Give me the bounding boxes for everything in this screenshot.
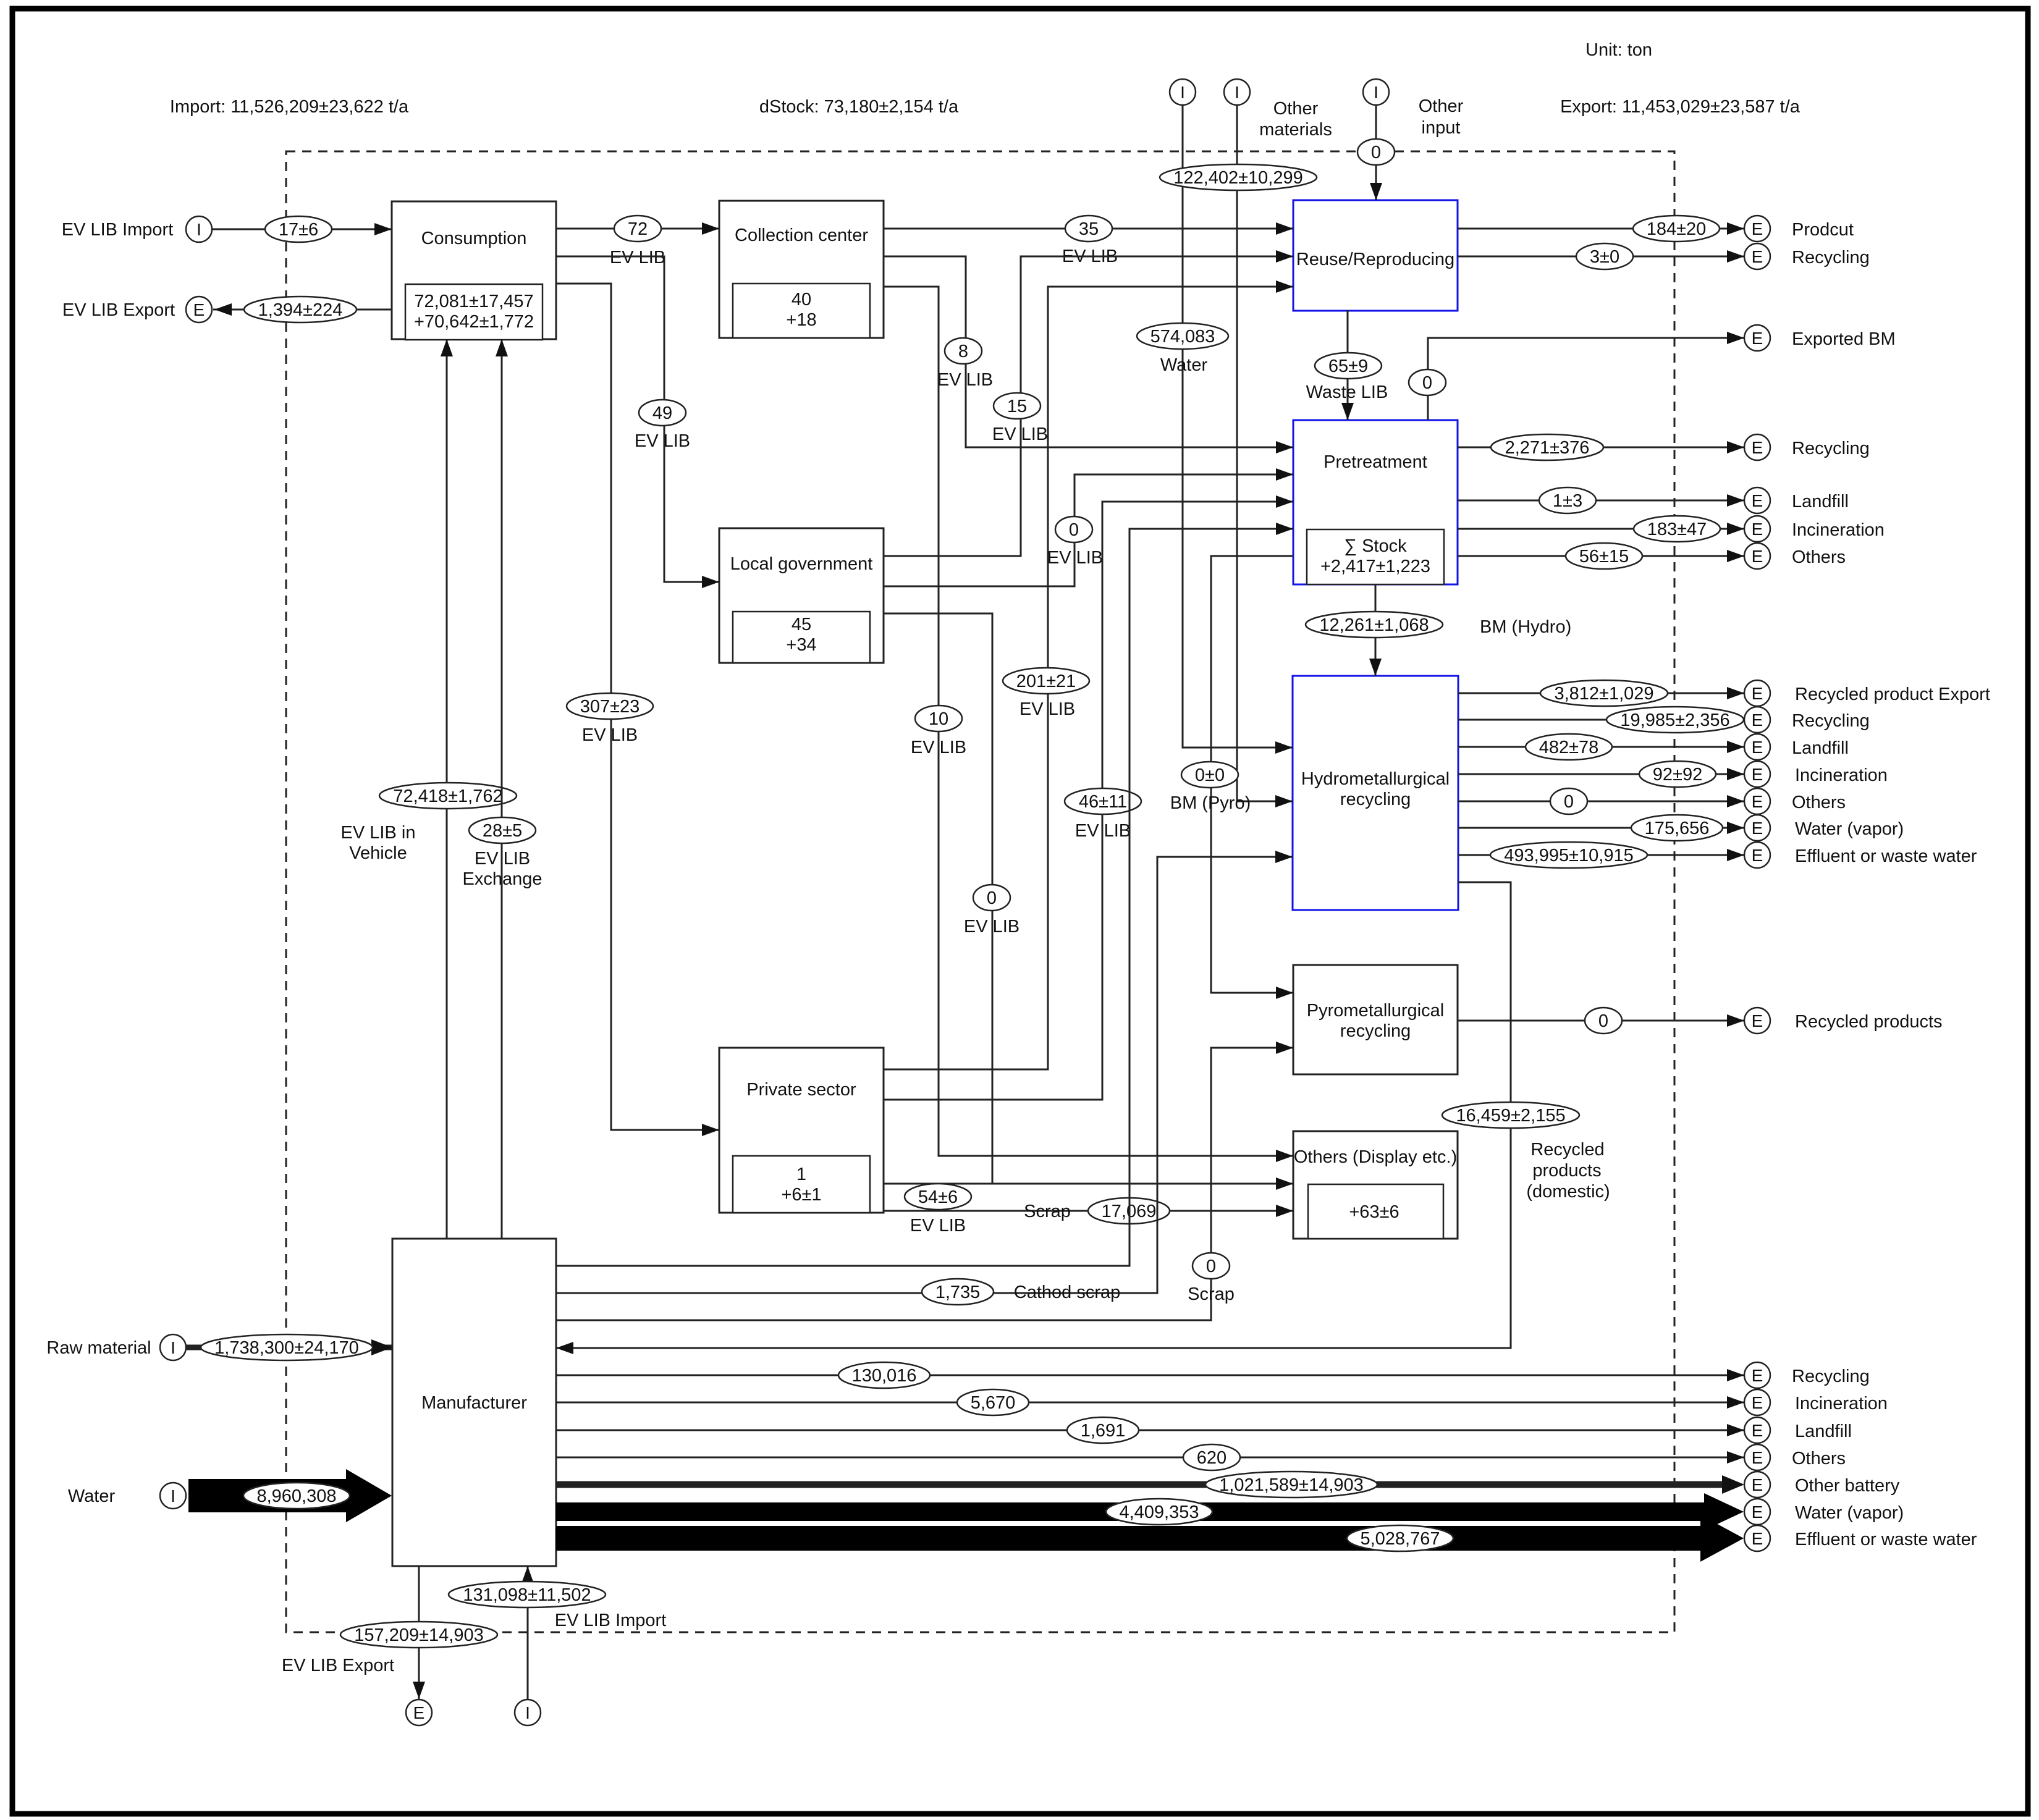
svg-text:8: 8	[958, 342, 968, 361]
svg-text:I: I	[1180, 83, 1185, 102]
flow 3±0 Reuse to Recycling	[1458, 243, 1744, 269]
flow 201±21 Private sector to Reuse	[884, 280, 1293, 1069]
svg-text:I: I	[171, 1486, 175, 1506]
svg-text:3±0: 3±0	[1590, 247, 1619, 267]
svg-text:Vehicle: Vehicle	[349, 843, 407, 863]
flow 0 Other input to Reuse	[1357, 105, 1395, 200]
export node E Other battery	[1744, 1472, 1900, 1498]
process Hydrometallurgical recycling	[1293, 676, 1458, 910]
dashed system boundary	[286, 151, 1674, 1632]
svg-text:Incineration: Incineration	[1795, 1394, 1888, 1413]
svg-text:E: E	[1752, 1011, 1763, 1030]
svg-text:19,985±2,356: 19,985±2,356	[1620, 710, 1729, 730]
flow 28±5 EV LIB Exchange Manufacturer to Consumption	[463, 339, 542, 1239]
svg-text:184±20: 184±20	[1647, 219, 1707, 239]
svg-text:Private sector: Private sector	[746, 1080, 856, 1100]
svg-text:Others: Others	[1792, 1449, 1846, 1468]
flow 49 Consumption to Local government	[556, 256, 719, 588]
svg-text:72,081±17,457: 72,081±17,457	[414, 292, 533, 311]
flow 2,271±376 Pretreatment to Recycling	[1458, 434, 1744, 460]
svg-text:130,016: 130,016	[852, 1366, 917, 1386]
svg-text:493,995±10,915: 493,995±10,915	[1504, 846, 1633, 866]
title Unit: ton	[1585, 40, 1652, 60]
svg-text:Incineration: Incineration	[1795, 765, 1888, 785]
export node E Recycled products	[1744, 1008, 1943, 1034]
flow 65±9 Waste LIB Reuse to Pretreatment	[1306, 310, 1388, 420]
import node I EV LIB Import	[62, 216, 212, 242]
svg-text:Landfill: Landfill	[1792, 738, 1849, 758]
svg-text:1,394±224: 1,394±224	[258, 300, 343, 320]
flow 574,083 Water to Hydro	[1137, 105, 1293, 754]
import node I Raw material	[46, 1334, 186, 1360]
process Private sector	[719, 1048, 884, 1213]
svg-text:Exchange: Exchange	[463, 869, 542, 889]
svg-text:Others (Display etc.): Others (Display etc.)	[1294, 1147, 1457, 1167]
svg-text:1,691: 1,691	[1081, 1421, 1126, 1441]
svg-text:Raw material: Raw material	[46, 1338, 151, 1358]
svg-text:I: I	[171, 1338, 175, 1357]
svg-text:92±92: 92±92	[1653, 765, 1702, 785]
process Pretreatment	[1293, 420, 1458, 584]
svg-text:Scrap: Scrap	[1024, 1202, 1071, 1221]
svg-text:EV LIB: EV LIB	[1020, 699, 1075, 719]
svg-text:1,021,589±14,903: 1,021,589±14,903	[1219, 1475, 1364, 1495]
flow 620 Manufacturer to Others	[556, 1444, 1744, 1470]
svg-text:+6±1: +6±1	[781, 1185, 821, 1205]
flow 0 Scrap Manufacturer to Pyro	[556, 1042, 1293, 1320]
svg-text:recycling: recycling	[1340, 1021, 1411, 1041]
svg-text:EV LIB in: EV LIB in	[341, 823, 416, 843]
svg-text:12,261±1,068: 12,261±1,068	[1319, 615, 1429, 635]
svg-text:E: E	[1752, 1366, 1763, 1385]
flow 175,656 Hydro to Water vapor	[1458, 815, 1744, 841]
flow 46±11 Private sector to Pretreatment	[884, 495, 1293, 1100]
svg-text:Exported BM: Exported BM	[1792, 329, 1896, 349]
export node E Landfill pre	[1744, 487, 1849, 513]
svg-text:49: 49	[652, 403, 672, 423]
svg-text:2,271±376: 2,271±376	[1505, 438, 1590, 458]
svg-text:E: E	[1752, 329, 1763, 348]
svg-text:Recycling: Recycling	[1792, 1367, 1870, 1386]
export node E Recycling hy	[1744, 707, 1870, 733]
export node E Incineration hy	[1744, 761, 1888, 787]
flow 1,735 Cathod scrap Manufacturer to Hydro	[556, 851, 1293, 1305]
svg-text:482±78: 482±78	[1539, 738, 1599, 757]
svg-text:574,083: 574,083	[1150, 327, 1215, 347]
svg-text:E: E	[1752, 684, 1763, 703]
svg-text:Waste LIB: Waste LIB	[1306, 382, 1388, 402]
svg-text:E: E	[1752, 1393, 1763, 1412]
svg-text:EV LIB Import: EV LIB Import	[555, 1611, 667, 1630]
label Export total	[1560, 97, 1800, 117]
flow 0 Hydro to Others	[1458, 788, 1744, 814]
svg-text:EV LIB: EV LIB	[1047, 548, 1103, 568]
svg-text:input: input	[1422, 118, 1461, 138]
svg-text:Collection center: Collection center	[735, 225, 868, 245]
svg-text:Pretreatment: Pretreatment	[1323, 452, 1427, 472]
flow 92±92 Hydro to Incineration	[1458, 761, 1744, 787]
flow 17,069 Scrap to Others	[884, 1198, 1293, 1224]
svg-text:1,738,300±24,170: 1,738,300±24,170	[214, 1338, 359, 1358]
svg-text:0±0: 0±0	[1195, 765, 1225, 785]
flow 3,812±1,029 Hydro to Recycled product Export	[1458, 680, 1744, 706]
svg-text:Local government: Local government	[730, 554, 873, 574]
svg-text:E: E	[1752, 1529, 1763, 1548]
svg-text:Reuse/Reproducing: Reuse/Reproducing	[1296, 250, 1454, 269]
process Manufacturer	[392, 1239, 556, 1566]
svg-text:Pyrometallurgical: Pyrometallurgical	[1307, 1001, 1444, 1021]
svg-text:175,656: 175,656	[1645, 819, 1710, 838]
svg-text:28±5: 28±5	[483, 821, 522, 841]
svg-text:E: E	[1752, 1421, 1763, 1440]
svg-text:16,459±2,155: 16,459±2,155	[1456, 1106, 1565, 1126]
svg-text:0: 0	[987, 888, 997, 908]
svg-text:EV LIB Export: EV LIB Export	[282, 1656, 394, 1675]
svg-text:E: E	[1752, 1475, 1763, 1494]
flow 183±47 Pretreatment to Incineration	[1458, 516, 1744, 542]
svg-text:Hydrometallurgical: Hydrometallurgical	[1301, 769, 1450, 789]
export node E Effluent hy	[1744, 842, 1977, 868]
flow 16,459±2,155 Recycled products domestic Hydro to Manufacturer	[556, 882, 1610, 1354]
svg-text:Effluent or waste water: Effluent or waste water	[1795, 1530, 1977, 1549]
import node I Water top	[1170, 79, 1196, 105]
svg-text:Water: Water	[1160, 355, 1208, 375]
svg-text:3,812±1,029: 3,812±1,029	[1554, 684, 1653, 704]
svg-text:8,960,308: 8,960,308	[256, 1486, 336, 1506]
flow 54±6 EV LIB Private sector stub	[884, 1184, 992, 1236]
flow 1,738,300±24,170 Raw material into Manufacturer	[186, 1334, 392, 1360]
svg-text:Prodcut: Prodcut	[1792, 220, 1854, 240]
export node E EV LIB Export	[62, 297, 212, 322]
svg-text:BM (Pyro): BM (Pyro)	[1170, 793, 1251, 813]
flow 184±20 Reuse to Prodcut	[1458, 216, 1744, 242]
svg-text:materials: materials	[1259, 120, 1332, 140]
flow 1,691 Manufacturer to Landfill	[556, 1417, 1744, 1443]
export node E Others mf	[1744, 1444, 1846, 1470]
svg-text:45: 45	[792, 615, 811, 634]
svg-text:5,670: 5,670	[971, 1393, 1016, 1413]
export node E Recycling top	[1744, 243, 1870, 269]
svg-text:I: I	[196, 220, 201, 239]
svg-text:Recycling: Recycling	[1792, 248, 1870, 268]
flow 493,995±10,915 Hydro to Effluent	[1458, 842, 1744, 868]
flow 0±0 BM (Pyro) Pretreatment to Pyro	[1170, 556, 1293, 999]
flow 5,670 Manufacturer to Incineration	[556, 1389, 1744, 1415]
flow scrap Manufacturer to Pretreatment	[556, 523, 1293, 1266]
flow 0 Pyro to Recycled products	[1458, 1008, 1744, 1034]
export node E Water vapor hy	[1744, 815, 1904, 841]
label Others title	[1294, 1147, 1457, 1167]
svg-text:Import: 11,526,209±23,622 t/a: Import: 11,526,209±23,622 t/a	[170, 97, 409, 117]
flow 122,402±10,299 Other materials to Hydro	[1160, 105, 1317, 807]
svg-text:+70,642±1,772: +70,642±1,772	[414, 312, 534, 332]
svg-text:EV LIB: EV LIB	[911, 738, 966, 757]
svg-text:Water (vapor): Water (vapor)	[1795, 819, 1904, 839]
svg-text:Recycling: Recycling	[1792, 439, 1870, 458]
svg-text:183±47: 183±47	[1647, 520, 1707, 539]
svg-text:E: E	[1752, 247, 1763, 266]
svg-text:E: E	[1752, 846, 1763, 865]
svg-text:EV LIB: EV LIB	[964, 917, 1020, 937]
svg-text:∑ Stock: ∑ Stock	[1344, 536, 1407, 556]
export node E Recycling mf	[1744, 1362, 1870, 1388]
export node E Recycled product Export	[1744, 680, 1990, 706]
svg-text:E: E	[1752, 219, 1763, 238]
flow 56±15 Pretreatment to Others	[1458, 543, 1744, 569]
svg-text:131,098±11,502: 131,098±11,502	[463, 1585, 591, 1605]
flow 72,418±1,762 EV LIB in Vehicle Manufacturer to Consumption	[341, 339, 517, 1239]
svg-text:157,209±14,903: 157,209±14,903	[354, 1625, 483, 1645]
svg-text:Others: Others	[1792, 547, 1846, 567]
svg-text:E: E	[1752, 547, 1763, 566]
svg-text:0: 0	[1371, 143, 1381, 162]
flow 12,261±1,068 BM (Hydro) Pretreatment to Hydro	[1306, 584, 1571, 676]
svg-text:Unit: ton: Unit: ton	[1585, 40, 1652, 60]
svg-text:Consumption: Consumption	[421, 229, 527, 248]
svg-text:Manufacturer: Manufacturer	[421, 1393, 527, 1413]
flow 19,985±2,356 Hydro to Recycling	[1458, 707, 1744, 733]
flow 0 Local government to Others	[884, 613, 1293, 1190]
svg-text:307±23: 307±23	[580, 697, 640, 717]
flow 307±23 Consumption to Private sector	[556, 284, 719, 1136]
svg-text:1: 1	[796, 1165, 806, 1184]
svg-text:0: 0	[1069, 520, 1079, 540]
import node I Other materials	[1224, 79, 1332, 140]
svg-text:0: 0	[1206, 1257, 1216, 1276]
svg-text:65±9: 65±9	[1328, 356, 1368, 376]
svg-text:E: E	[1752, 1502, 1763, 1522]
svg-text:E: E	[413, 1703, 425, 1722]
svg-text:0: 0	[1564, 792, 1574, 812]
svg-text:0: 0	[1422, 373, 1432, 393]
flow 17±6 EV LIB Import into Consumption	[212, 216, 392, 242]
svg-text:+2,417±1,223: +2,417±1,223	[1320, 557, 1430, 576]
label Import total	[170, 97, 409, 117]
export node E Incineration pre	[1744, 516, 1885, 542]
flow 35 Collection to Reuse	[884, 216, 1293, 266]
flow 4,409,353 Manufacturer to Water vapor	[556, 1493, 1744, 1530]
export node E Prodcut	[1744, 216, 1854, 242]
svg-text:EV LIB Import: EV LIB Import	[62, 220, 174, 240]
svg-text:17±6: 17±6	[279, 220, 318, 240]
svg-text:1±3: 1±3	[1553, 491, 1582, 511]
import node I Water left	[68, 1483, 186, 1509]
process Collection center	[719, 201, 884, 338]
svg-text:E: E	[1752, 491, 1763, 510]
svg-text:EV LIB: EV LIB	[610, 248, 665, 268]
flow 5,028,767 Manufacturer to Effluent	[556, 1515, 1744, 1562]
svg-text:EV LIB: EV LIB	[635, 431, 690, 451]
import node I Other input	[1363, 79, 1464, 138]
svg-text:4,409,353: 4,409,353	[1119, 1502, 1199, 1522]
svg-text:Incineration: Incineration	[1792, 520, 1885, 540]
flow 157,209±14,903 EV LIB Export from Manufacturer	[282, 1566, 497, 1699]
process Pyrometallurgical recycling	[1293, 965, 1458, 1074]
svg-text:+63±6: +63±6	[1349, 1202, 1399, 1222]
svg-text:Other battery: Other battery	[1795, 1476, 1900, 1496]
export node E Landfill hy	[1744, 734, 1849, 760]
svg-text:Recycled: Recycled	[1530, 1140, 1604, 1160]
svg-text:35: 35	[1079, 219, 1099, 239]
svg-text:0: 0	[1598, 1011, 1608, 1031]
flow 482±78 Hydro to Landfill	[1458, 734, 1744, 760]
svg-text:EV LIB: EV LIB	[937, 370, 993, 390]
svg-text:Landfill: Landfill	[1792, 492, 1849, 512]
flow 130,016 Manufacturer to Recycling	[556, 1362, 1744, 1388]
svg-text:201±21: 201±21	[1016, 672, 1076, 691]
svg-text:Water: Water	[68, 1486, 116, 1506]
svg-text:(domestic): (domestic)	[1526, 1182, 1610, 1202]
flow 72 Consumption to Collection center	[556, 216, 719, 268]
export node E Others hy	[1744, 788, 1846, 814]
svg-text:72: 72	[628, 219, 648, 239]
svg-text:Scrap: Scrap	[1188, 1284, 1235, 1304]
svg-text:Recycling: Recycling	[1792, 711, 1870, 731]
svg-text:+18: +18	[786, 310, 816, 330]
flow 8,960,308 Water into Manufacturer	[188, 1469, 392, 1522]
svg-text:Recycled product Export: Recycled product Export	[1795, 685, 1990, 704]
svg-text:E: E	[193, 300, 205, 319]
flow 10 Collection to Others	[884, 287, 1293, 1162]
svg-text:EV LIB: EV LIB	[992, 424, 1048, 444]
svg-text:EV LIB Export: EV LIB Export	[62, 300, 175, 320]
flow 8 Collection to Pretreatment	[884, 256, 1293, 453]
svg-text:EV LIB: EV LIB	[1075, 821, 1131, 841]
svg-text:dStock: 73,180±2,154 t/a: dStock: 73,180±2,154 t/a	[759, 97, 959, 117]
svg-text:BM (Hydro): BM (Hydro)	[1480, 617, 1571, 637]
svg-text:40: 40	[792, 290, 811, 310]
svg-text:Effluent or waste water: Effluent or waste water	[1795, 846, 1977, 866]
svg-text:54±6: 54±6	[918, 1187, 958, 1207]
flow 0 Exported BM from Pretreatment	[1409, 332, 1744, 420]
svg-text:E: E	[1752, 792, 1763, 811]
svg-text:I: I	[1235, 83, 1239, 102]
svg-text:Other: Other	[1419, 96, 1464, 116]
flow 1,021,589±14,903 Manufacturer to Other battery	[556, 1472, 1744, 1498]
flow 1,394±224 Consumption to EV LIB Export	[213, 297, 392, 322]
svg-text:Water (vapor): Water (vapor)	[1795, 1503, 1904, 1523]
export node E Others pre	[1744, 543, 1846, 569]
svg-text:Others: Others	[1792, 793, 1846, 812]
label dStock total	[759, 97, 959, 117]
flow 0 Local government to Pretreatment	[884, 468, 1293, 586]
svg-text:EV LIB: EV LIB	[910, 1216, 966, 1236]
svg-text:E: E	[1752, 710, 1763, 730]
svg-text:Export: 11,453,029±23,587 t/a: Export: 11,453,029±23,587 t/a	[1560, 97, 1800, 117]
svg-text:recycling: recycling	[1340, 790, 1411, 809]
export node E Effluent mf	[1744, 1525, 1977, 1551]
svg-text:E: E	[1752, 1448, 1763, 1467]
svg-text:Landfill: Landfill	[1795, 1422, 1852, 1441]
process Others (Display etc.)	[1293, 1131, 1458, 1239]
svg-text:EV LIB: EV LIB	[475, 849, 530, 869]
flow 15 Local government to Reuse	[884, 250, 1293, 556]
svg-text:Cathod scrap: Cathod scrap	[1014, 1283, 1121, 1302]
process Consumption	[392, 201, 556, 340]
svg-text:I: I	[525, 1703, 530, 1722]
export node E Incineration mf	[1744, 1389, 1888, 1415]
svg-text:+34: +34	[786, 635, 816, 655]
svg-text:1,735: 1,735	[935, 1283, 981, 1302]
svg-text:122,402±10,299: 122,402±10,299	[1173, 168, 1302, 188]
process Local government	[719, 528, 884, 663]
process Reuse/Reproducing	[1293, 200, 1458, 311]
svg-text:Recycled products: Recycled products	[1795, 1012, 1943, 1032]
svg-text:620: 620	[1197, 1448, 1226, 1468]
svg-text:E: E	[1752, 738, 1763, 757]
export node E bottom	[406, 1700, 432, 1725]
flow 1±3 Pretreatment to Landfill	[1458, 487, 1744, 513]
export node E Exported BM	[1744, 325, 1896, 351]
svg-text:10: 10	[929, 709, 948, 729]
svg-text:56±15: 56±15	[1579, 547, 1629, 567]
svg-text:46±11: 46±11	[1079, 792, 1127, 812]
svg-text:E: E	[1752, 520, 1763, 539]
svg-text:5,028,767: 5,028,767	[1360, 1529, 1440, 1549]
flow 131,098±11,502 EV LIB Import into Manufacturer	[449, 1566, 666, 1700]
svg-text:Other: Other	[1273, 99, 1319, 119]
svg-text:72,418±1,762: 72,418±1,762	[393, 786, 502, 806]
export node E Recycling pre	[1744, 434, 1870, 460]
svg-text:E: E	[1752, 819, 1763, 838]
svg-text:I: I	[1374, 83, 1378, 102]
svg-text:15: 15	[1007, 397, 1027, 416]
export node E Water vapor mf	[1744, 1499, 1904, 1525]
svg-text:EV LIB: EV LIB	[582, 725, 638, 745]
svg-text:products: products	[1532, 1161, 1601, 1181]
export node E Landfill mf	[1744, 1417, 1852, 1443]
import node I bottom	[515, 1700, 541, 1725]
svg-text:E: E	[1752, 765, 1763, 784]
svg-text:E: E	[1752, 438, 1763, 457]
